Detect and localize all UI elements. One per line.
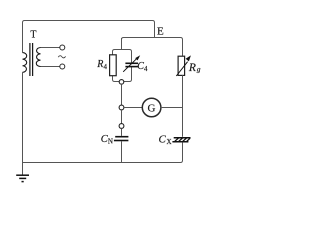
wire right branch: Rg bottom through G tee to CX xyxy=(182,75,184,137)
wire secondary bottom stub xyxy=(41,66,60,68)
label Rg xyxy=(188,62,201,74)
svg-text:N: N xyxy=(108,137,113,145)
capacitor CN (standard) xyxy=(114,137,128,141)
capacitor C4 (variable) xyxy=(123,55,140,72)
terminal circle top xyxy=(60,45,65,50)
capacitor CX (unknown, hatched test object) xyxy=(172,138,190,142)
label CN xyxy=(101,134,113,145)
wire secondary top stub xyxy=(41,47,60,49)
resistor R4 xyxy=(110,55,117,76)
galvanometer G xyxy=(142,98,161,117)
wire G left lead xyxy=(124,107,142,109)
svg-text:R: R xyxy=(188,62,196,74)
svg-text:R: R xyxy=(96,59,103,70)
wire G right lead xyxy=(161,107,183,109)
wire node to CN top plate xyxy=(121,128,123,136)
wire middle branch: combo to G tap xyxy=(121,84,123,105)
transformer T primary winding (left branch) xyxy=(23,53,27,73)
svg-text:g: g xyxy=(197,65,201,74)
wire bottom bus xyxy=(23,159,183,163)
svg-text:4: 4 xyxy=(144,65,148,73)
wire middle branch: G tap to CN node xyxy=(121,110,123,124)
svg-text:X: X xyxy=(167,138,172,146)
svg-text:T: T xyxy=(30,30,36,41)
terminal circle bottom xyxy=(60,64,65,69)
AC source tilde symbol xyxy=(58,56,65,58)
label C4 xyxy=(137,61,148,73)
wire combo bottom bus xyxy=(113,67,132,81)
wire CN bottom plate to bottom bus xyxy=(121,141,123,162)
resistor Rg (variable) xyxy=(176,55,191,76)
wire middle branch down to R4/C4 parallel combo xyxy=(121,38,123,50)
wire left branch below winding to ground xyxy=(22,72,24,175)
wire tee horizontal bus below E xyxy=(122,38,183,57)
svg-text:G: G xyxy=(148,102,156,114)
svg-text:E: E xyxy=(157,25,164,37)
wire top line from transformer to node E corner xyxy=(23,21,155,53)
svg-text:C: C xyxy=(159,133,167,145)
wire CX to bottom right corner xyxy=(182,142,184,161)
transformer T secondary winding xyxy=(36,48,40,67)
node junction circle above CN xyxy=(119,124,124,129)
node junction circle at G tap xyxy=(119,105,124,110)
label R4 xyxy=(96,59,107,71)
wire combo top bus xyxy=(113,50,132,63)
node junction circle under combo xyxy=(119,80,124,85)
svg-text:4: 4 xyxy=(104,63,108,71)
ground xyxy=(16,175,29,181)
transformer core xyxy=(30,43,33,76)
label CX xyxy=(159,133,172,145)
